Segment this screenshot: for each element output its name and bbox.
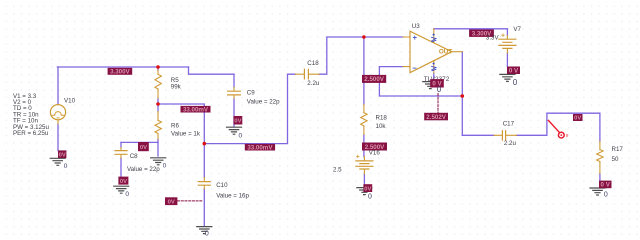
svg-text:0: 0	[64, 163, 68, 170]
junction node R5 R6 mid	[156, 102, 160, 106]
svg-text:0: 0	[604, 191, 608, 198]
svg-text:0: 0	[513, 78, 518, 87]
wire C8 rail to R6 bottom	[121, 141, 158, 143]
ground under C10	[197, 227, 212, 234]
bias label 0 V at R17 ground	[599, 181, 612, 189]
svg-text:0V: 0V	[140, 145, 147, 151]
wire V10 bottom lead	[57, 124, 59, 151]
wire R17 to ground	[599, 174, 601, 181]
dc source V7	[499, 34, 516, 53]
svg-text:0: 0	[239, 133, 243, 140]
junction node feedback OUT	[461, 94, 465, 98]
junction node R5 top	[156, 65, 160, 69]
dashed leader to 2.502V label	[437, 94, 439, 113]
op-amp OUT lead	[452, 51, 463, 53]
svg-text:0V: 0V	[168, 199, 175, 205]
pulse source V10	[50, 105, 65, 124]
svg-text:2.2u: 2.2u	[307, 80, 320, 87]
bias label 0V at V16	[363, 184, 372, 192]
svg-text:0 V: 0 V	[509, 67, 519, 74]
svg-text:OUT: OUT	[439, 49, 452, 56]
bias label 3.300V top rail	[108, 68, 133, 76]
junction node lower rail C10	[203, 142, 207, 146]
wire OUT to C17	[462, 134, 494, 136]
wire minus input feedback	[379, 67, 462, 96]
svg-text:V16: V16	[369, 149, 381, 156]
wire C17 to right rail	[517, 113, 600, 135]
bias label 0V at op-amp ground	[430, 79, 444, 88]
svg-text:C9: C9	[247, 90, 255, 97]
op-amp V+ power marker	[432, 34, 436, 42]
bias label 0V at V10	[58, 150, 66, 158]
junction node plus input R18	[362, 35, 366, 39]
V10 parameter list	[13, 93, 50, 137]
wire V- pin to ground	[433, 73, 435, 80]
bias label 2.500V upper	[362, 75, 386, 83]
svg-text:2.502V: 2.502V	[426, 114, 446, 121]
svg-text:Value = 22p: Value = 22p	[247, 98, 280, 105]
ground under C8	[114, 186, 129, 193]
svg-text:0V: 0V	[120, 179, 127, 185]
wire C18 right to op-amp plus input	[319, 37, 403, 74]
capacitor C18	[296, 69, 320, 79]
ground under op-amp	[423, 82, 438, 89]
svg-text:3.300V: 3.300V	[110, 68, 130, 75]
op-amp input pin stubs	[403, 37, 410, 67]
svg-text:PER = 6.25u: PER = 6.25u	[13, 130, 49, 137]
svg-text:R6: R6	[171, 122, 179, 129]
svg-text:R18: R18	[376, 114, 388, 121]
resistor R6	[155, 112, 161, 139]
wire R5 top stub	[157, 67, 159, 71]
svg-text:33.00mV: 33.00mV	[247, 144, 273, 151]
resistor R5	[155, 70, 161, 98]
svg-text:3.3V: 3.3V	[486, 35, 500, 42]
svg-text:0 V: 0 V	[601, 182, 611, 189]
wire C8 top drop	[120, 142, 122, 147]
wire V10 top lead	[57, 67, 59, 105]
svg-text:C10: C10	[216, 182, 228, 189]
voltage probe marker	[548, 120, 568, 139]
svg-text:Value = 1k: Value = 1k	[171, 130, 201, 137]
wire R18 branch 2.500V net	[363, 37, 365, 105]
wire C10 top drop	[203, 144, 205, 178]
wire V7 to ground	[506, 53, 508, 67]
svg-text:10k: 10k	[376, 123, 387, 130]
op-amp plus sign	[413, 36, 416, 39]
op-amp V- pin stub	[433, 60, 435, 73]
dc source V16	[356, 155, 373, 174]
wire C9 top drop	[233, 74, 235, 87]
wire lower rail to C18	[204, 74, 295, 143]
wire OUT vertical	[461, 52, 463, 136]
wire C10 to ground	[203, 189, 205, 226]
ground under R17	[590, 188, 605, 195]
dashed leader to 0V label near C10	[178, 200, 203, 202]
resistor R17	[597, 141, 603, 173]
wire R18 to V16	[363, 135, 365, 157]
svg-text:0V: 0V	[574, 116, 581, 122]
svg-text:0: 0	[125, 191, 129, 198]
capacitor C10	[198, 178, 210, 189]
ground under C9	[227, 127, 242, 134]
svg-text:U3: U3	[412, 23, 420, 30]
wire R5 bottom stub	[157, 98, 159, 104]
bias label 0 V at V7 ground	[507, 67, 520, 75]
ground under V10	[50, 158, 65, 165]
svg-text:0V: 0V	[234, 119, 241, 125]
svg-text:0: 0	[368, 193, 372, 200]
svg-text:V10: V10	[64, 98, 76, 105]
svg-text:2.5: 2.5	[333, 166, 342, 173]
svg-text:V7: V7	[513, 26, 521, 33]
bias label 3.300V at V7	[469, 30, 494, 38]
ground under R6	[151, 158, 166, 165]
bias label 0V on right rail	[573, 114, 583, 122]
op-amp V- power marker	[432, 63, 436, 71]
wire R6 to ground	[157, 139, 159, 156]
svg-text:2.500V: 2.500V	[364, 76, 384, 83]
svg-text:0V: 0V	[59, 152, 66, 158]
bias label 33.00mV lower	[245, 144, 275, 151]
wire top rail 3.300V net	[57, 66, 188, 68]
svg-text:Value = 16p: Value = 16p	[216, 193, 249, 200]
svg-text:33.00mV: 33.00mV	[183, 106, 209, 113]
op-amp minus sign	[413, 67, 416, 69]
svg-text:99k: 99k	[171, 83, 182, 90]
svg-text:0V: 0V	[364, 186, 371, 192]
svg-text:C17: C17	[503, 121, 515, 128]
svg-text:2.2u: 2.2u	[504, 140, 517, 147]
resistor R18	[361, 105, 367, 135]
svg-text:C18: C18	[307, 60, 319, 67]
capacitor C17	[494, 131, 517, 141]
bias label 2.500V lower	[362, 143, 387, 151]
capacitor C8	[115, 148, 127, 158]
svg-text:C8: C8	[130, 153, 138, 160]
wire right rail to R17	[599, 113, 601, 141]
bias label 0V on C8 rail	[138, 142, 149, 151]
wire C8 to ground	[120, 158, 122, 177]
ground under V16	[357, 188, 372, 195]
bias label 0V at C9	[234, 116, 243, 125]
wire C9 to ground	[233, 99, 235, 127]
wire V+ power rail to V7	[434, 29, 508, 36]
svg-text:0: 0	[437, 85, 442, 94]
wire mid rail 33.00mV net	[158, 104, 204, 144]
op-amp U3 triangle	[410, 31, 452, 72]
bias label 0V at C8	[118, 177, 128, 185]
wire R6 top stub	[157, 104, 159, 112]
svg-text:R17: R17	[612, 146, 624, 153]
svg-text:0: 0	[205, 230, 209, 237]
wire V16 to ground	[363, 174, 365, 184]
wire step down to C9 level	[189, 67, 235, 74]
bias label 33.00mV mid	[181, 106, 211, 113]
bias label 0V near C10	[165, 197, 177, 205]
capacitor C9	[228, 87, 241, 98]
svg-text:50: 50	[612, 156, 619, 163]
svg-text:Value = 22p: Value = 22p	[127, 166, 160, 173]
op-amp V+ pin stub	[433, 29, 435, 43]
ground under V7	[500, 74, 515, 81]
bias label 2.502V	[424, 113, 448, 121]
